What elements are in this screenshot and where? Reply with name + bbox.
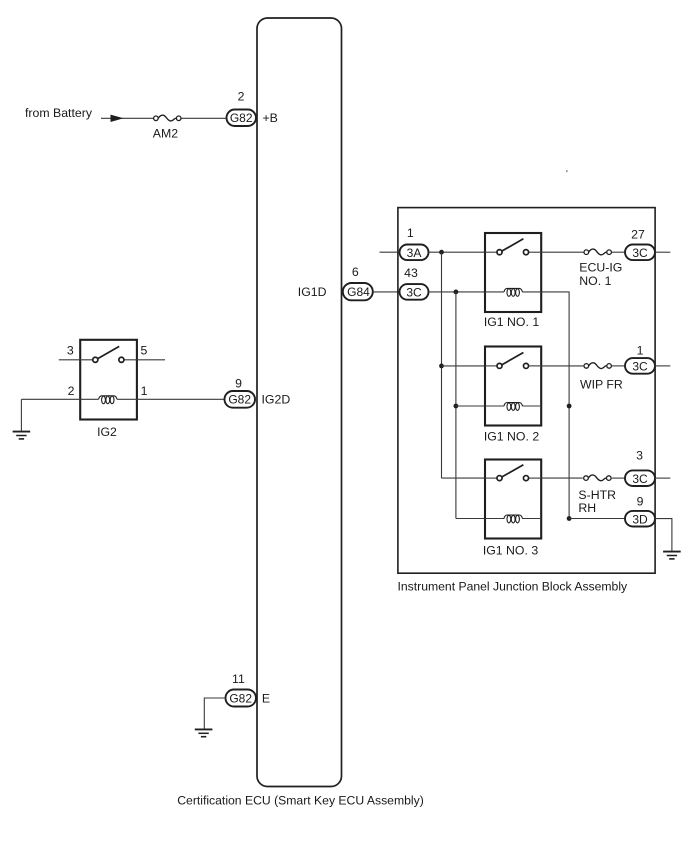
wire coil bus to 3D <box>569 518 625 520</box>
svg-text:5: 5 <box>140 343 147 357</box>
svg-text:G82: G82 <box>229 692 252 706</box>
connector 3C pin 43 <box>400 284 429 300</box>
relay IG1 NO.2 switch contacts <box>497 363 502 368</box>
svg-text:S-HTR: S-HTR <box>578 488 616 502</box>
wire bus B to relay IG1 NO.2 coil <box>456 405 541 407</box>
fuse ECU-IG NO.1 <box>584 249 611 255</box>
connector G84 pin 6 <box>343 283 373 300</box>
svg-text:1: 1 <box>141 384 148 398</box>
wire fuse to 3C pin 1 <box>612 365 626 367</box>
relay IG1 NO.2 coil wire <box>485 405 504 407</box>
wire IG2 pin 2 to coil <box>21 398 98 400</box>
svg-text:from Battery: from Battery <box>25 106 93 120</box>
junction dot B1 <box>454 290 459 295</box>
relay IG1 NO.1 box <box>485 233 541 312</box>
wire 3C to relay IG1 NO.1 coil <box>429 291 542 293</box>
relay IG2 coil <box>99 396 117 404</box>
svg-text:3D: 3D <box>632 512 648 526</box>
svg-text:6: 6 <box>352 265 359 279</box>
svg-text:G82: G82 <box>230 111 253 125</box>
svg-text:Certification ECU (Smart Key E: Certification ECU (Smart Key ECU Assembl… <box>177 793 424 807</box>
wire IG2 pin 1 to connector G82 pin 9 <box>117 398 225 400</box>
svg-text:IG1 NO. 3: IG1 NO. 3 <box>483 543 539 557</box>
wire relay2 to fuse WIP FR <box>541 365 583 367</box>
relay IG1 NO.1 coil <box>504 288 522 296</box>
svg-text:3: 3 <box>67 343 74 357</box>
connector G82 pin 9 <box>225 391 256 408</box>
relay IG2 switch blade <box>98 346 119 358</box>
ground 3D <box>663 552 681 559</box>
wire bus A to relay IG1 NO.2 switch <box>442 365 497 367</box>
wire 3D to ground <box>655 519 672 551</box>
svg-text:ECU-IG: ECU-IG <box>579 261 622 275</box>
svg-text:3C: 3C <box>632 472 648 486</box>
wire fuse to 3C pin 27 <box>612 251 626 253</box>
junction dot B2 <box>454 404 459 409</box>
relay IG1 NO.2 switch blade <box>502 353 523 365</box>
svg-text:9: 9 <box>637 495 644 509</box>
junction dot A2 <box>439 364 444 369</box>
wire IG2 ground drop <box>20 399 22 431</box>
stray speck <box>566 170 568 172</box>
wire bus A vertical <box>441 252 443 478</box>
svg-text:27: 27 <box>631 228 645 242</box>
wire fuse to 3C pin 3 <box>612 477 626 479</box>
svg-text:1: 1 <box>407 226 414 240</box>
relay IG1 NO.1 switch contacts <box>497 250 502 255</box>
fuse S-HTR RH <box>584 475 611 481</box>
wire out of 3C pin 1 <box>655 365 670 367</box>
fuse AM2 <box>154 115 181 121</box>
svg-text:IG2D: IG2D <box>262 393 291 407</box>
wire stub left of 3A <box>380 251 401 253</box>
wire fuse to connector G82 pin 2 <box>181 117 227 119</box>
wire battery feed <box>101 117 153 119</box>
wire 3A to relay IG1 NO.1 switch <box>429 251 497 253</box>
svg-text:43: 43 <box>404 266 418 280</box>
relay IG1 NO.2 box <box>485 347 541 426</box>
connector 3C pin 27 <box>625 245 655 261</box>
relay IG1 NO.3 coil <box>504 515 522 523</box>
svg-text:2: 2 <box>68 384 75 398</box>
connector G82 pin 2 <box>227 110 257 127</box>
svg-text:IG2: IG2 <box>97 425 117 439</box>
connector 3C pin 3 <box>625 470 655 486</box>
relay IG1 NO.2 coil <box>504 403 522 411</box>
relay IG1 NO.1 switch wires <box>485 251 497 253</box>
wire E to ground <box>204 698 225 729</box>
Instrument Panel Junction Block box <box>398 208 655 574</box>
wire G84 to 3C <box>374 291 401 293</box>
svg-text:G82: G82 <box>228 393 251 407</box>
relay IG1 NO.3 switch wires <box>485 477 497 479</box>
svg-text:+B: +B <box>263 111 278 125</box>
relay IG1 NO.2 switch wires <box>485 365 497 367</box>
relay IG1 NO.1 switch blade <box>502 239 523 251</box>
svg-text:11: 11 <box>232 672 245 686</box>
svg-text:AM2: AM2 <box>153 127 178 141</box>
arrow battery direction <box>111 115 124 122</box>
connector 3D pin 9 <box>625 511 655 527</box>
wire out of 3C pin 3 <box>655 477 670 479</box>
wire relay1 to fuse ECU-IG <box>541 251 583 253</box>
svg-text:3C: 3C <box>632 246 648 260</box>
svg-text:IG1 NO. 2: IG1 NO. 2 <box>484 430 540 444</box>
fuse WIP FR <box>584 363 611 369</box>
wire coil bus from relay1 <box>541 292 569 519</box>
connector 3A pin 1 <box>400 245 429 261</box>
wire bus A to relay IG1 NO.3 switch <box>442 477 497 479</box>
relay IG1 NO.3 switch blade <box>502 465 523 477</box>
relay IG1 NO.3 switch contacts <box>497 476 502 481</box>
connector 3C pin 1 <box>625 358 655 374</box>
ground IG2 <box>13 432 31 439</box>
relay IG1 NO.1 coil wire <box>485 291 504 293</box>
svg-text:E: E <box>262 691 270 705</box>
svg-text:3: 3 <box>636 449 643 463</box>
svg-text:G84: G84 <box>347 285 370 299</box>
svg-text:WIP FR: WIP FR <box>580 378 623 392</box>
wire IG2 pin 5 <box>124 359 165 361</box>
relay IG1 NO.3 box <box>485 460 541 539</box>
svg-text:NO. 1: NO. 1 <box>579 274 611 288</box>
connector G82 pin 11 <box>226 690 257 707</box>
ground E <box>195 729 213 736</box>
relay IG1 NO.3 coil wire <box>485 518 504 520</box>
junction dot C2 <box>567 516 572 521</box>
junction dot C1 <box>567 404 572 409</box>
svg-text:IG1D: IG1D <box>298 285 327 299</box>
svg-text:3C: 3C <box>632 360 648 374</box>
junction dot A1 <box>439 250 444 255</box>
svg-text:2: 2 <box>238 90 245 104</box>
svg-text:3C: 3C <box>406 286 422 300</box>
svg-text:IG1 NO. 1: IG1 NO. 1 <box>484 315 540 329</box>
svg-text:Instrument Panel Junction Bloc: Instrument Panel Junction Block Assembly <box>398 580 629 594</box>
wire IG2 pin 3 <box>59 359 93 361</box>
svg-text:1: 1 <box>637 344 644 358</box>
svg-text:3A: 3A <box>407 246 422 260</box>
relay IG2 switch contacts <box>93 357 98 362</box>
svg-text:RH: RH <box>578 501 596 515</box>
wire bus B to relay IG1 NO.3 coil <box>456 518 541 520</box>
relay IG2 box <box>80 340 137 420</box>
wire relay3 to fuse S-HTR <box>541 477 583 479</box>
Certification ECU box <box>257 18 342 787</box>
wire out of 3C pin 27 <box>655 251 670 253</box>
wire bus B vertical <box>455 292 457 519</box>
svg-text:9: 9 <box>235 377 242 391</box>
